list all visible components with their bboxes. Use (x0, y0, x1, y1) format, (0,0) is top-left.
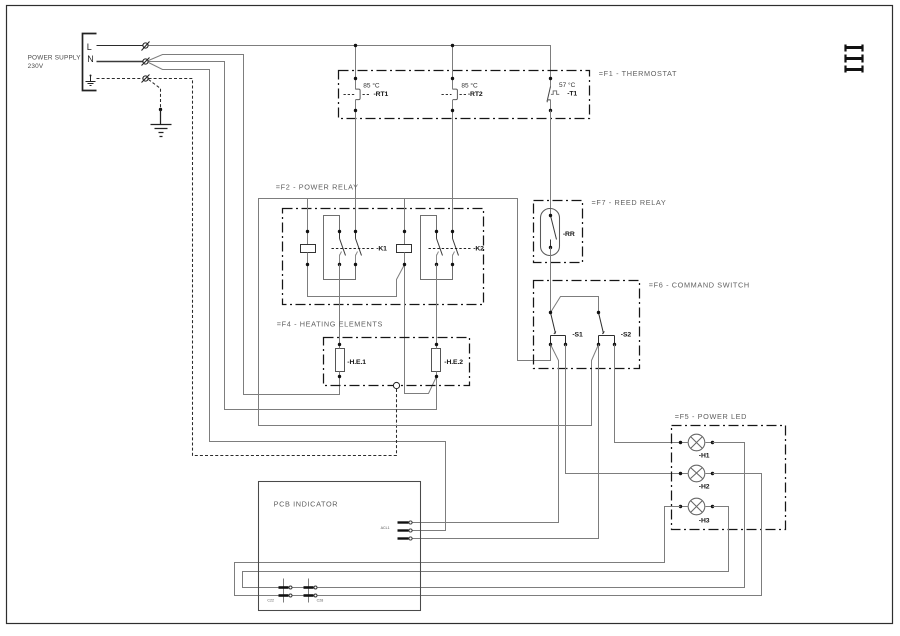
svg-text:-RT1: -RT1 (374, 91, 389, 98)
wire K1 coil feed tap (307, 199, 309, 245)
junction H.E.1 bottom (338, 375, 341, 378)
svg-text:-S1: -S1 (572, 332, 583, 339)
svg-text:POWER SUPPLY: POWER SUPPLY (28, 55, 82, 62)
junction RR top (549, 214, 552, 217)
svg-text:230V: 230V (28, 63, 44, 70)
svg-text:-H.E.2: -H.E.2 (444, 359, 463, 366)
wire RT1 drop from L line (355, 46, 357, 232)
wire S1 right throw to lamp H2 (566, 345, 681, 474)
connector pin 2 (398, 529, 413, 532)
junction RT1 top (354, 77, 357, 80)
svg-text:85 °C: 85 °C (461, 82, 478, 90)
wire N fan branch to H.E.1 return (149, 55, 340, 395)
junction S2 common (597, 311, 600, 314)
junction S1 throw left (549, 343, 552, 346)
junctions K2 row bottom (403, 263, 454, 266)
sheet number III (rotated roman numeral) (846, 45, 863, 73)
svg-text:C22: C22 (267, 598, 274, 602)
capacitor C28 (304, 579, 318, 603)
junction RT1 bottom (354, 109, 357, 112)
junction S2 throw right (613, 343, 616, 346)
mechanical link K2 dashed (429, 248, 471, 250)
wire K2 series loop (421, 216, 453, 280)
wire K2 coil return to H.E.2 terminal (405, 265, 437, 394)
wire S1 common to S2 common link (551, 297, 599, 313)
coil K1 (301, 245, 316, 253)
thermostat group box F1 (339, 71, 590, 119)
wire N straight branch to H.E.2 return (149, 62, 437, 410)
svg-text:-H1: -H1 (699, 452, 710, 459)
terminal circle L (142, 42, 150, 51)
svg-text:C28: C28 (317, 598, 324, 602)
svg-text:=F1 - THERMOSTAT: =F1 - THERMOSTAT (599, 69, 677, 78)
svg-text:-RT2: -RT2 (468, 91, 483, 98)
junction S1 common (549, 311, 552, 314)
wire L from bracket to terminal (97, 45, 143, 47)
junction H2 left (679, 472, 682, 475)
svg-text:-H.E.1: -H.E.1 (347, 359, 366, 366)
power relay group box F2 (283, 209, 484, 305)
lamp H1 (681, 434, 713, 451)
contact K2 pole A (437, 232, 443, 265)
PE symbol at bracket (86, 75, 96, 86)
svg-text:85 °C: 85 °C (363, 82, 380, 90)
thermostat RT2 (442, 89, 468, 100)
switch S1 (551, 313, 566, 345)
wire K2 coil bottom lead (404, 253, 406, 265)
wire L line to thermostats and T1 (149, 46, 551, 79)
wire reed relay to S1 common (550, 248, 552, 313)
svg-text:-H3: -H3 (699, 517, 710, 524)
lamp H3 (681, 498, 713, 515)
svg-text:L: L (87, 42, 92, 52)
wire S1 to PCB pin1 (413, 345, 559, 523)
junction S2 throw left (597, 343, 600, 346)
contact K1 pole B (356, 232, 362, 265)
junction H.E.2 bottom (435, 375, 438, 378)
junction RT2 bottom (451, 109, 454, 112)
svg-text:=F5 - POWER LED: =F5 - POWER LED (675, 412, 747, 421)
wire K1 coil to K2 coil link (308, 265, 405, 297)
connector pin 1 (398, 521, 413, 524)
wire N fan branch to PCB pin2 (149, 63, 446, 531)
svg-text:-S2: -S2 (621, 332, 632, 339)
switch S2 (599, 313, 615, 345)
junction H.E.2 top (435, 343, 438, 346)
PCB indicator box (259, 482, 421, 611)
wire K1 series loop (324, 216, 356, 280)
wire net H1 right to capacitors upper rail to H3 right (243, 443, 745, 588)
junction T1 bottom (549, 109, 552, 112)
svg-text:N: N (87, 54, 94, 64)
wire PE dashed branch to earth (149, 80, 161, 110)
wire S2 right throw to lamp H1 (615, 345, 681, 443)
svg-text:ACL1: ACL1 (381, 526, 390, 530)
svg-text:=F6 - COMMAND SWITCH: =F6 - COMMAND SWITCH (649, 280, 750, 289)
wire K1 coil bottom lead (307, 253, 309, 265)
power supply label (28, 55, 82, 70)
svg-text:-K1: -K1 (376, 246, 387, 253)
wire PE dashed run to heating enclosure (149, 79, 397, 456)
power led group box F5 (672, 426, 786, 530)
svg-text:-RR: -RR (563, 231, 575, 238)
mechanical link K1 dashed (332, 248, 375, 250)
svg-text:PCB INDICATOR: PCB INDICATOR (274, 500, 339, 509)
wire coil drive net from S1 and S2 (259, 199, 599, 426)
thermostat RT1 (344, 89, 370, 100)
heating element H.E.1 (336, 345, 345, 377)
capacitor C22 (279, 579, 293, 603)
wire PE dashed from bracket to terminal (97, 78, 143, 80)
junction RT2 at L line (451, 44, 454, 47)
wire K1 pole A to H.E.1 (339, 265, 341, 345)
junctions K2 row top (403, 230, 454, 233)
heating element H.E.2 (432, 345, 441, 377)
svg-text:-K2: -K2 (473, 246, 484, 253)
wire K2 pole A to H.E.2 (436, 265, 438, 345)
lamp H2 (681, 465, 713, 482)
junction S1 throw right (564, 343, 567, 346)
junctions K1 row top (306, 230, 357, 233)
svg-text:=F7 - REED RELAY: =F7 - REED RELAY (592, 198, 667, 207)
junction H3 right (711, 505, 714, 508)
wire S2 to PCB pin3 (413, 345, 599, 539)
junction H1 left (679, 441, 682, 444)
junction H2 right (711, 472, 714, 475)
svg-text:=F4 - HEATING ELEMENTS: =F4 - HEATING ELEMENTS (277, 320, 383, 329)
svg-text:57 °C: 57 °C (559, 81, 576, 89)
reed relay group box F7 (534, 201, 583, 263)
junction PE earth (159, 108, 162, 111)
heating elements group box F4 (324, 338, 470, 386)
junction H1 right (711, 441, 714, 444)
junction RT2 top (451, 77, 454, 80)
wire net H3 left to capacitors lower rail to H2 right (235, 474, 762, 596)
junction H3 left (679, 505, 682, 508)
terminal circle N (142, 58, 150, 66)
junction T1 top (549, 77, 552, 80)
svg-text:-T1: -T1 (567, 91, 577, 98)
wire RT2 drop from L line (452, 46, 454, 232)
junction H.E.1 top (338, 343, 341, 346)
wire K2 coil feed tap (404, 199, 406, 245)
wire N from bracket to terminal (97, 61, 143, 63)
coil K2 (397, 245, 412, 253)
wire T1 to reed relay (550, 111, 552, 216)
junction RR bottom (549, 246, 552, 249)
command switch group box F6 (534, 281, 640, 369)
connector pin 3 (398, 537, 413, 540)
junctions K1 row bottom (306, 263, 357, 266)
power supply bracket (83, 34, 97, 91)
PE bond circle on enclosure (393, 382, 399, 388)
junction RT1 at L line (354, 44, 357, 47)
earth ground symbol (151, 110, 172, 137)
terminal circle PE (142, 75, 150, 83)
thermostat T1 (547, 79, 559, 111)
reed relay RR (541, 209, 560, 256)
svg-text:=F2 - POWER RELAY: =F2 - POWER RELAY (276, 182, 359, 191)
svg-text:-H2: -H2 (699, 484, 710, 491)
contact K2 pole B (453, 232, 459, 265)
contact K1 pole A (340, 232, 346, 265)
